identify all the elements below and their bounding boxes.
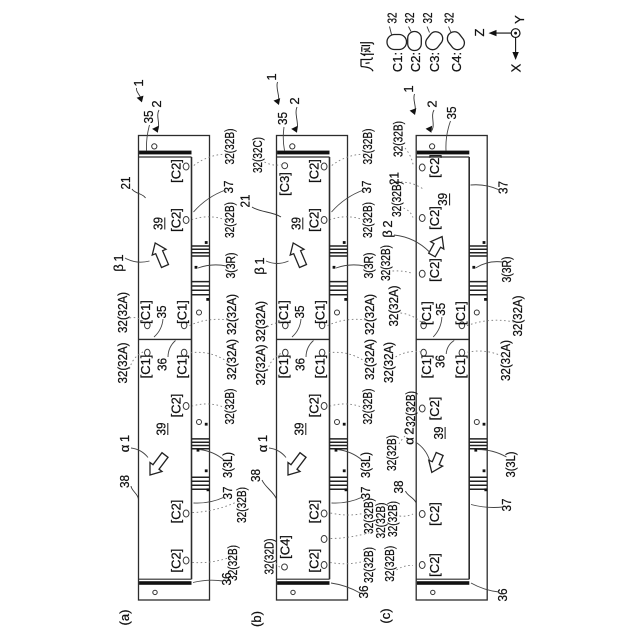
strip rivet holes - module (c) <box>474 310 479 315</box>
module (b) left stack boundary line <box>277 578 330 580</box>
svg-text:[C2]: [C2] <box>307 208 322 232</box>
svg-text:32(32A): 32(32A) <box>386 286 401 327</box>
svg-text:2: 2 <box>149 100 164 107</box>
module (a) end plate 35 right thick band <box>139 151 191 155</box>
bus bar 3(3L) ladders - module (b) <box>330 448 348 450</box>
svg-text:C4:: C4: <box>449 52 464 72</box>
svg-text:β 1: β 1 <box>252 257 267 274</box>
svg-text:32(32A): 32(32A) <box>362 294 377 335</box>
axis X arrow left <box>515 38 517 57</box>
svg-text:32(32B): 32(32B) <box>378 245 393 281</box>
svg-text:[C1]: [C1] <box>138 300 153 324</box>
svg-text:32(32B): 32(32B) <box>361 547 376 583</box>
middle terminals 32(32A) - module (b) <box>283 322 289 329</box>
svg-text:3(3L): 3(3L) <box>503 452 518 478</box>
module (a) right stack boundary line <box>139 156 192 158</box>
svg-text:1: 1 <box>264 73 279 80</box>
svg-text:[C1]: [C1] <box>175 300 190 324</box>
svg-text:32(32A): 32(32A) <box>115 292 130 333</box>
svg-text:[C1]: [C1] <box>313 300 328 324</box>
svg-text:36: 36 <box>433 355 448 368</box>
svg-text:39: 39 <box>292 423 307 436</box>
strip rivet holes - module (a) <box>197 310 202 315</box>
svg-text:32(32A): 32(32A) <box>253 345 268 386</box>
strip weld dots - module (a) <box>205 241 208 244</box>
svg-text:39: 39 <box>431 427 446 440</box>
svg-text:39: 39 <box>151 217 166 230</box>
svg-text:32: 32 <box>420 13 435 24</box>
module (b) outer case 2 <box>277 136 348 601</box>
svg-text:32(32B): 32(32B) <box>403 391 418 427</box>
svg-text:32(32A): 32(32A) <box>224 294 239 335</box>
svg-text:39: 39 <box>289 217 304 230</box>
cell terminals 32 upper edge - module (c) <box>419 164 425 171</box>
svg-text:35: 35 <box>444 107 459 120</box>
module (a) cell stack bottom frame line <box>191 157 193 579</box>
svg-text:3(3L): 3(3L) <box>220 452 235 478</box>
strip rivet holes - module (b) <box>335 310 340 315</box>
svg-text:X: X <box>509 63 524 72</box>
svg-text:32(32A): 32(32A) <box>381 342 396 383</box>
svg-text:[C1]: [C1] <box>453 355 468 379</box>
svg-text:39: 39 <box>154 423 169 436</box>
module (b) middle partition line <box>277 338 330 340</box>
svg-text:[C2]: [C2] <box>169 159 184 183</box>
svg-text:C3:: C3: <box>427 52 442 72</box>
direction arrow beta2 - module (c) <box>429 237 444 257</box>
module (c) left end hole <box>431 590 435 594</box>
svg-text:1: 1 <box>401 85 416 92</box>
module (c) end plate 36 left thick band <box>417 581 469 585</box>
svg-text:32(32B): 32(32B) <box>222 129 237 165</box>
svg-text:(a): (a) <box>117 610 132 626</box>
svg-text:37: 37 <box>359 181 374 194</box>
svg-text:32(32B): 32(32B) <box>385 501 400 537</box>
svg-text:32(32A): 32(32A) <box>115 343 130 384</box>
svg-text:[C2]: [C2] <box>169 208 184 232</box>
module (c) cell stack bottom frame line <box>468 157 470 579</box>
svg-text:32(32A): 32(32A) <box>498 340 513 381</box>
svg-text:32(32B): 32(32B) <box>389 181 404 217</box>
svg-text:32(32B): 32(32B) <box>360 389 375 425</box>
module (b) right end hole <box>290 144 295 149</box>
svg-text:3(3L): 3(3L) <box>358 452 373 478</box>
module (c) right end hole <box>430 144 435 149</box>
svg-text:[C2]: [C2] <box>307 394 322 418</box>
module (c) middle partition line <box>416 338 469 340</box>
direction arrow alpha - module (b) <box>288 453 306 475</box>
direction arrow beta - module (b) <box>290 243 306 268</box>
module (b) right stack boundary line <box>277 156 330 158</box>
svg-text:[C2]: [C2] <box>307 500 322 524</box>
module (c) outer case 2 <box>416 136 487 601</box>
svg-text:[C2]: [C2] <box>169 549 184 573</box>
module (a) left stack boundary line <box>139 578 192 580</box>
svg-text:35: 35 <box>154 306 169 319</box>
svg-text:[C1]: [C1] <box>313 355 328 379</box>
svg-text:32(32B): 32(32B) <box>360 129 375 165</box>
svg-text:37: 37 <box>221 181 236 194</box>
svg-text:32: 32 <box>442 13 457 24</box>
svg-text:[C2]: [C2] <box>427 206 442 230</box>
svg-text:32(32B): 32(32B) <box>391 121 406 157</box>
svg-text:36: 36 <box>155 358 170 371</box>
svg-text:36: 36 <box>219 573 234 586</box>
strip weld dots - module (b) <box>343 241 346 244</box>
svg-text:[C2]: [C2] <box>427 553 442 577</box>
svg-text:38: 38 <box>391 481 406 494</box>
svg-text:32: 32 <box>385 13 400 24</box>
svg-text:35: 35 <box>275 112 290 125</box>
svg-text:(c): (c) <box>378 608 393 623</box>
svg-text:35: 35 <box>141 111 156 124</box>
svg-text:(b): (b) <box>249 611 264 627</box>
svg-text:1: 1 <box>131 79 146 86</box>
svg-text:3(3R): 3(3R) <box>499 257 514 283</box>
svg-text:36: 36 <box>293 358 308 371</box>
middle terminals 32(32A) - module (a) <box>145 322 151 329</box>
bus bar 3(3L) ladders - module (a) <box>192 448 210 450</box>
bus bar 3(3L) ladders - module (c) <box>469 448 487 450</box>
svg-text:[C1]: [C1] <box>276 300 291 324</box>
svg-text:32(32C): 32(32C) <box>250 137 265 173</box>
module (c) left stack boundary line <box>416 578 469 580</box>
axis Z arrow up <box>492 32 511 34</box>
svg-text:35: 35 <box>433 303 448 316</box>
svg-text:32(32D): 32(32D) <box>262 539 277 575</box>
terminal 32(32D) type C4 - module (b) <box>282 564 288 570</box>
middle terminals 32(32A) - module (c) <box>421 322 427 329</box>
svg-text:2: 2 <box>425 100 440 107</box>
svg-text:35: 35 <box>292 306 307 319</box>
svg-text:32(32B): 32(32B) <box>234 487 249 523</box>
svg-text:[C2]: [C2] <box>307 549 322 573</box>
svg-text:α 2: α 2 <box>402 427 417 444</box>
module (a) right end hole <box>152 144 157 149</box>
coordinate axes origin - Y out of page <box>511 29 520 38</box>
direction arrow beta - module (a) <box>152 243 168 268</box>
cell terminals 32 lower edge - module (a) <box>183 163 189 170</box>
svg-text:32(32B): 32(32B) <box>382 546 397 582</box>
svg-text:[C4]: [C4] <box>278 535 293 559</box>
svg-text:β 2: β 2 <box>380 220 395 237</box>
legend title hanrei glyphs <box>360 43 374 71</box>
direction arrow alpha - module (a) <box>150 453 168 475</box>
svg-text:[C1]: [C1] <box>175 355 190 379</box>
module (b) end plate 35 right thick band <box>277 151 329 155</box>
svg-text:[C2]: [C2] <box>427 258 442 282</box>
svg-text:32(32A): 32(32A) <box>224 339 239 380</box>
svg-text:37: 37 <box>496 181 511 194</box>
svg-text:[C2]: [C2] <box>427 502 442 526</box>
terminal 32(32C) type C3 - module (b) <box>282 163 288 169</box>
svg-text:38: 38 <box>248 469 263 482</box>
svg-text:[C3]: [C3] <box>277 172 292 196</box>
svg-text:C2:: C2: <box>408 52 423 72</box>
svg-text:[C2]: [C2] <box>427 397 442 421</box>
bus bar 3(3R) ladders - module (c) <box>469 255 487 257</box>
svg-text:[C2]: [C2] <box>169 500 184 524</box>
svg-text:Y: Y <box>512 15 527 24</box>
svg-text:2: 2 <box>287 97 302 104</box>
svg-text:36: 36 <box>495 589 510 602</box>
strip weld dots - module (c) <box>483 241 486 244</box>
bus bar 3(3R) ladders - module (a) <box>192 255 210 257</box>
bus bar 3(3R) ladders - module (b) <box>330 255 348 257</box>
svg-text:32: 32 <box>402 13 417 24</box>
svg-text:C1:: C1: <box>390 52 405 72</box>
module (b) end plate 36 left thick band <box>277 581 329 585</box>
svg-text:[C1]: [C1] <box>276 355 291 379</box>
svg-text:32(32B): 32(32B) <box>222 389 237 425</box>
svg-text:38: 38 <box>117 475 132 488</box>
cell terminals 32 lower edge - module (b) <box>321 163 327 170</box>
svg-text:[C2]: [C2] <box>169 394 184 418</box>
svg-text:37: 37 <box>499 499 514 512</box>
svg-text:32(32A): 32(32A) <box>253 301 268 342</box>
svg-text:32(32A): 32(32A) <box>362 339 377 380</box>
module (c) end plate 35 right thick band <box>417 151 469 155</box>
module (b) left end hole <box>291 590 295 594</box>
svg-text:32(32B): 32(32B) <box>384 435 399 471</box>
svg-text:[C2]: [C2] <box>307 159 322 183</box>
module (a) left end hole <box>153 590 157 594</box>
module (a) end plate 36 left thick band <box>139 581 191 585</box>
module (a) middle partition line <box>139 338 192 340</box>
svg-text:β 1: β 1 <box>111 254 126 271</box>
module (c) right stack boundary line <box>416 156 469 158</box>
svg-text:α 1: α 1 <box>255 435 270 452</box>
svg-text:Z: Z <box>472 28 487 36</box>
svg-text:[C1]: [C1] <box>453 301 468 325</box>
svg-text:21: 21 <box>238 195 253 208</box>
svg-text:[C2]: [C2] <box>427 154 442 178</box>
svg-text:32(32A): 32(32A) <box>510 296 525 337</box>
svg-text:[C1]: [C1] <box>138 355 153 379</box>
svg-text:21: 21 <box>118 177 133 190</box>
module (b) cell stack bottom frame line <box>329 157 331 579</box>
svg-text:32(32B): 32(32B) <box>222 202 237 238</box>
direction arrow alpha2 - module (c) <box>429 453 443 473</box>
svg-text:32(32B): 32(32B) <box>360 202 375 238</box>
svg-text:α 1: α 1 <box>117 435 132 452</box>
module (a) outer case 2 <box>139 136 210 601</box>
svg-text:39: 39 <box>435 193 450 206</box>
